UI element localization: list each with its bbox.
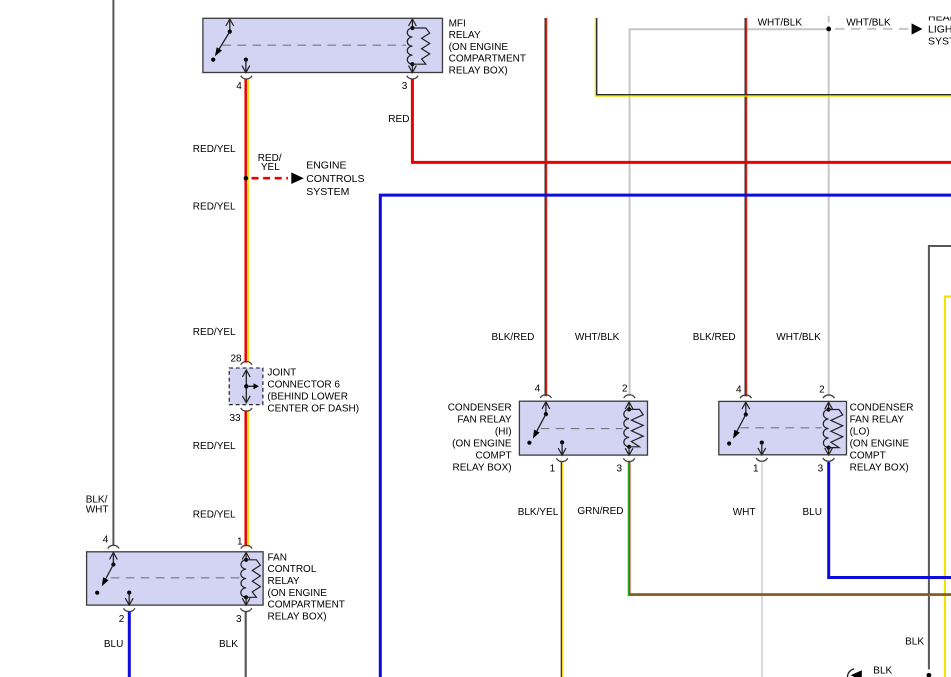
svg-text:1: 1 <box>753 464 759 475</box>
wire WHT/BLK dashed to headlight system <box>835 28 909 30</box>
svg-text:4: 4 <box>236 81 242 92</box>
svg-text:RED/YEL: RED/YEL <box>193 327 236 338</box>
svg-text:2: 2 <box>119 614 125 625</box>
wire GRN/RED from condenser fan relay HI pin 3 (red stripe) <box>630 462 951 594</box>
wire WHT/BLK dashed stub above junction <box>828 16 830 22</box>
svg-text:WHT/BLK: WHT/BLK <box>776 332 821 343</box>
condenser fan relay LO pin 4 cup <box>740 395 751 398</box>
fan control relay resistor <box>246 560 260 598</box>
wire YEL from right edge corner down to bottom edge <box>945 297 951 677</box>
wire GRN/RED from condenser fan relay HI pin 3 (green stripe) <box>629 462 951 596</box>
fan control relay pin 1 cup <box>241 545 252 548</box>
MFI relay box <box>203 18 443 72</box>
fan control relay switch <box>112 552 114 564</box>
svg-text:RED/YEL: RED/YEL <box>193 201 236 212</box>
fan control relay pin 3 cup <box>240 608 251 611</box>
joint connector pin 28 cup <box>241 362 252 365</box>
svg-text:RED: RED <box>388 114 409 125</box>
MFI relay coil <box>411 19 413 28</box>
wire BLK/RED to condenser fan relay LO pin 4 (black stripe) <box>744 18 746 396</box>
svg-text:RED/YEL: RED/YEL <box>193 441 236 452</box>
wire BLU from condenser fan relay LO pin 3 to right edge <box>829 462 951 578</box>
wire WHT from condenser fan relay LO pin 1 to bottom edge <box>761 462 763 677</box>
condenser fan relay HI dashed internal link <box>541 428 623 430</box>
svg-text:BLK: BLK <box>905 637 924 648</box>
svg-text:WHT/BLK: WHT/BLK <box>575 332 620 343</box>
fan control relay pin 2 cup <box>124 608 135 611</box>
wire BLK/RED to condenser fan relay LO pin 4 (red stripe) <box>746 18 748 396</box>
condenser fan relay HI pin 3 cup <box>623 458 634 461</box>
svg-text:33: 33 <box>229 413 241 424</box>
wire BLK/RED to condenser fan relay HI pin 4 (red stripe) <box>546 18 548 396</box>
condenser fan relay HI resistor <box>629 409 643 446</box>
wire RED from MFI relay pin 3 to right edge <box>412 79 951 163</box>
svg-text:WHT/BLK: WHT/BLK <box>758 17 803 28</box>
wire BLK/YEL upper (yellow stripe) vertical then right to edge <box>595 18 951 96</box>
condenser fan relay LO box <box>719 401 847 454</box>
MFI relay switch <box>229 19 231 32</box>
MFI relay pin 4 connector cup <box>241 76 252 79</box>
svg-text:3: 3 <box>402 81 408 92</box>
fan control relay box <box>87 552 264 605</box>
svg-text:BLK/YEL: BLK/YEL <box>518 507 559 518</box>
svg-text:BLK/WHT: BLK/WHT <box>86 495 109 516</box>
svg-text:BLU: BLU <box>803 507 822 518</box>
wire BLU from fan control relay pin 2 to bottom edge <box>128 612 131 677</box>
joint connector pin 33 cup <box>241 408 252 411</box>
svg-text:HEAD-LIGHTSYSTEM: HEAD-LIGHTSYSTEM <box>928 12 951 48</box>
wire BLK/RED to condenser fan relay HI pin 4 (black stripe) <box>544 18 546 396</box>
condenser fan relay LO pin 3 cup <box>823 458 834 461</box>
svg-text:28: 28 <box>230 354 242 365</box>
condenser fan relay LO coil <box>828 402 830 409</box>
wire BLK/YEL from condenser fan relay HI pin 1 (yellow stripe) <box>562 462 564 677</box>
svg-text:4: 4 <box>535 383 541 394</box>
condenser fan relay HI coil <box>628 402 630 410</box>
wire WHT/BLK junction to condenser fan relay LO pin 2 <box>828 29 830 397</box>
condenser fan relay HI pin 1 terminal <box>560 440 564 444</box>
MFI relay resistor <box>412 28 429 64</box>
svg-text:4: 4 <box>103 534 109 545</box>
arrow to headlight system <box>912 23 923 34</box>
condenser fan relay HI switch <box>545 402 547 414</box>
svg-text:CONDENSERFAN RELAY(LO)(ON ENGI: CONDENSERFAN RELAY(LO)(ON ENGINECOMPTREL… <box>850 402 914 473</box>
svg-text:BLK/RED: BLK/RED <box>492 332 535 343</box>
svg-text:BLK/RED: BLK/RED <box>693 332 736 343</box>
wire BLK/YEL upper (black stripe) <box>597 18 951 95</box>
junction dot WHT/BLK to headlight system <box>826 27 831 32</box>
condenser fan relay HI pin 1 cup <box>556 458 567 461</box>
arrow to engine controls system <box>291 172 304 184</box>
svg-text:BLK: BLK <box>219 639 238 650</box>
svg-text:4: 4 <box>736 385 742 396</box>
svg-text:3: 3 <box>818 463 824 474</box>
wire RED/YEL joint connector pin 33 to fan control relay pin 1 (red stripe) <box>244 410 247 546</box>
joint connector 6 internal wire <box>245 370 247 402</box>
svg-text:BLK: BLK <box>873 666 892 677</box>
condenser fan relay LO resistor <box>829 410 843 448</box>
svg-text:3: 3 <box>616 463 622 474</box>
svg-text:RED/YEL: RED/YEL <box>193 144 236 155</box>
fan control relay coil <box>245 552 247 559</box>
svg-text:1: 1 <box>237 537 243 548</box>
wire BLK/YEL from condenser fan relay HI pin 1 (black stripe) <box>560 462 562 677</box>
joint connector 6 box <box>229 368 263 405</box>
condenser fan relay LO dashed internal link <box>741 427 822 429</box>
wire BLU from engine-controls branch corner to right edge and bottom edge <box>380 195 951 677</box>
condenser fan relay HI box <box>519 401 647 455</box>
MFI relay pin 3 connector cup <box>407 76 418 79</box>
wire RED/YEL joint connector pin 33 to fan control relay pin 1 (yellow stripe) <box>247 410 249 546</box>
svg-text:RED/YEL: RED/YEL <box>258 153 282 173</box>
wire RED/YEL MFI relay pin 4 to joint connector pin 28 (red stripe) <box>244 79 247 363</box>
svg-text:BLU: BLU <box>104 639 123 650</box>
fan control relay dashed internal link <box>111 577 241 579</box>
wire BLK from right edge corner down right side <box>929 246 951 670</box>
wire BLK from fan control relay pin 3 to bottom edge <box>245 612 247 677</box>
condenser fan relay LO pin 2 cup <box>823 395 834 398</box>
connector cup bottom edge <box>847 669 854 677</box>
wire RED/YEL dashed branch to engine controls system <box>252 177 289 180</box>
MFI relay dashed internal link <box>223 44 407 46</box>
svg-text:2: 2 <box>819 385 825 396</box>
svg-text:2: 2 <box>622 383 628 394</box>
fan control relay pin 4 cup <box>108 545 119 548</box>
wire RED/YEL MFI relay pin 4 to joint connector pin 28 (yellow stripe) <box>247 79 249 363</box>
condenser fan relay LO pin 1 terminal <box>760 441 764 445</box>
wire WHT/BLK to condenser fan relay HI pin 2 <box>630 29 829 396</box>
arrow BLK pointing left at bottom edge <box>851 670 862 677</box>
wire BLK/WHT from top edge to fan control relay pin 4 <box>112 0 114 546</box>
junction node RED/YEL to engine controls system <box>244 176 249 181</box>
svg-text:WHT/BLK: WHT/BLK <box>846 17 891 28</box>
condenser fan relay HI pin 4 cup <box>540 395 551 398</box>
MFI relay pin 4 terminal <box>244 58 248 62</box>
condenser fan relay LO pin 1 cup <box>756 458 767 461</box>
condenser fan relay HI pin 2 cup <box>624 395 635 398</box>
condenser fan relay LO switch <box>745 402 747 415</box>
svg-text:CONDENSERFAN RELAY(HI)(ON ENGI: CONDENSERFAN RELAY(HI)(ON ENGINECOMPTREL… <box>448 402 512 473</box>
svg-text:3: 3 <box>236 614 242 625</box>
fan control relay pin 2 terminal <box>127 591 131 595</box>
white crop mask over HEAD- line <box>924 0 951 17</box>
junction dot BLK wire bottom <box>927 673 932 677</box>
svg-text:WHT: WHT <box>733 507 756 518</box>
svg-text:1: 1 <box>550 464 556 475</box>
svg-text:GRN/RED: GRN/RED <box>577 506 623 517</box>
svg-text:RED/YEL: RED/YEL <box>193 509 236 520</box>
